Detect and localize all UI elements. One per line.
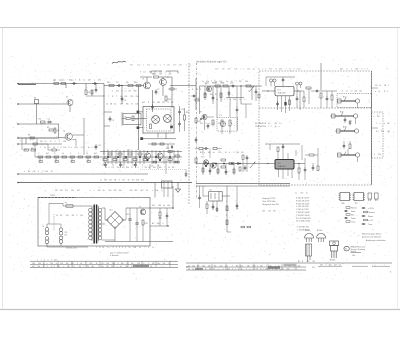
svg-text:10k: 10k <box>37 266 40 268</box>
capacitor C18 <box>230 85 232 87</box>
svg-text:1k: 1k <box>96 263 98 265</box>
svg-text:10k: 10k <box>354 91 357 93</box>
wire right edge riser <box>371 71 373 185</box>
svg-text:220: 220 <box>137 263 140 265</box>
capacitor C6 <box>121 96 123 98</box>
wire stub line1 <box>65 84 67 89</box>
svg-text:n: n <box>380 123 381 125</box>
transistor T8 <box>206 86 211 91</box>
svg-text:n: n <box>279 126 280 128</box>
svg-text:1u: 1u <box>129 247 131 249</box>
svg-text:1k: 1k <box>205 268 207 270</box>
svg-text:22n: 22n <box>112 263 115 265</box>
svg-text:10k: 10k <box>119 190 122 192</box>
transformer TR1 core <box>93 205 95 244</box>
svg-text:u: u <box>219 268 220 270</box>
svg-text:u: u <box>186 65 187 67</box>
svg-text:22n: 22n <box>109 180 112 182</box>
wire top rail <box>140 76 152 78</box>
case drawing TO92 b <box>317 233 326 238</box>
capacitor C11 <box>179 121 181 123</box>
svg-text:R4: R4 <box>39 119 41 121</box>
resistor R29 <box>221 159 226 161</box>
svg-text:Diode: Diode <box>351 218 355 220</box>
svg-text:C15: C15 <box>126 214 129 216</box>
svg-text:k: k <box>166 72 167 74</box>
svg-text:0,1: 0,1 <box>143 72 146 74</box>
capacitor C3 <box>92 83 94 85</box>
wire output band rail 3 <box>104 161 178 163</box>
resistor R32 <box>309 154 314 156</box>
svg-text:100: 100 <box>157 102 160 104</box>
case drawing DIP a <box>340 193 350 201</box>
svg-text:Trans.: Trans. <box>351 220 356 223</box>
svg-text:0,1: 0,1 <box>339 264 341 266</box>
ic IC2 <box>275 160 294 170</box>
wire input line 1 <box>18 83 104 85</box>
wire into ic1 <box>262 90 275 92</box>
wire x300 drop <box>299 91 301 110</box>
mains connector X1 <box>45 228 49 232</box>
resistor R1 <box>54 83 59 85</box>
svg-text:R 103 22k 0207: R 103 22k 0207 <box>296 203 309 205</box>
svg-text:T9: T9 <box>200 112 202 114</box>
wire lower link rail <box>143 138 176 140</box>
capacitor C5 <box>116 85 118 87</box>
title strip left line 2 <box>30 263 178 265</box>
svg-text:1k: 1k <box>102 247 104 249</box>
svg-text:Elko: Elko <box>351 214 354 216</box>
svg-text:4k7: 4k7 <box>88 80 91 82</box>
svg-text:0,1: 0,1 <box>268 123 271 125</box>
wire l5 tail <box>37 143 48 145</box>
svg-text:47k: 47k <box>153 74 156 76</box>
wire jack4 net <box>337 154 341 156</box>
wire ic1 out <box>294 90 302 92</box>
connector box output <box>162 181 173 188</box>
svg-text:R5: R5 <box>47 127 49 129</box>
capacitor C28 <box>304 167 306 169</box>
capacitor C24b <box>296 96 298 98</box>
svg-text:u: u <box>93 190 94 192</box>
fuse F1 <box>66 205 73 207</box>
svg-text:k: k <box>106 167 107 169</box>
capacitor C23 <box>296 82 299 85</box>
scan page bottom border <box>0 309 400 311</box>
transistor T2 <box>65 133 72 140</box>
svg-text:Verstärker Endstufe regie 51: Verstärker Endstufe regie 510 <box>196 61 227 64</box>
capacitor C9 <box>109 116 111 118</box>
svg-text:T4: T4 <box>167 77 169 79</box>
svg-text:22n: 22n <box>137 65 140 67</box>
capacitor C8 <box>152 104 154 106</box>
svg-text:k: k <box>138 167 139 169</box>
svg-text:1u: 1u <box>107 247 109 249</box>
svg-text:T3: T3 <box>142 79 144 81</box>
svg-text:47k: 47k <box>98 80 101 82</box>
wire x321 riser <box>320 63 322 90</box>
svg-text:10k: 10k <box>126 167 129 169</box>
ic1 pin 2 <box>281 96 283 112</box>
svg-text:1u: 1u <box>231 81 233 83</box>
svg-text:22n: 22n <box>204 94 207 96</box>
svg-text:T: T <box>235 268 236 270</box>
svg-text:100: 100 <box>98 190 101 192</box>
ic2 pins down <box>278 169 280 177</box>
transistor T5 <box>144 153 150 159</box>
resistor R14 <box>150 124 152 129</box>
resistor R5 <box>49 129 53 131</box>
svg-text:T: T <box>98 266 99 268</box>
svg-text:4k7: 4k7 <box>135 190 138 192</box>
svg-text:R15: R15 <box>186 112 189 114</box>
svg-text:1u: 1u <box>295 193 297 195</box>
svg-text:220: 220 <box>114 190 117 192</box>
svg-text:10k: 10k <box>167 205 170 207</box>
svg-text:1k: 1k <box>196 89 198 91</box>
svg-text:10k: 10k <box>359 91 362 93</box>
svg-text:k: k <box>162 190 163 192</box>
capacitor C21 <box>269 79 272 82</box>
pad module pin 1 <box>137 111 140 114</box>
resistor R28 <box>331 95 333 100</box>
jack BU3 <box>340 130 355 132</box>
svg-text:k: k <box>144 263 145 265</box>
capacitor C17 <box>166 213 168 215</box>
capacitor C22 <box>282 77 284 79</box>
component feet <box>241 226 245 228</box>
svg-text:k: k <box>209 123 210 125</box>
transformer TR1 primary <box>89 208 93 212</box>
svg-text:1u: 1u <box>146 190 148 192</box>
svg-text:u: u <box>91 147 92 149</box>
dashed divider <box>259 107 372 109</box>
svg-text:10k: 10k <box>24 149 27 151</box>
svg-text:R 101 4k7 0207: R 101 4k7 0207 <box>296 198 309 200</box>
svg-text:100: 100 <box>133 247 136 249</box>
component group right lower <box>312 165 314 167</box>
svg-text:R9: R9 <box>126 82 128 84</box>
case drawing small a <box>368 193 372 199</box>
svg-text:10k: 10k <box>245 81 248 83</box>
svg-text:10k: 10k <box>159 167 162 169</box>
wire t2 base <box>59 137 66 139</box>
switch S2 <box>59 228 63 232</box>
svg-text:k: k <box>229 152 230 154</box>
svg-text:220: 220 <box>57 266 60 268</box>
svg-text:C5: C5 <box>116 82 118 84</box>
capacitor C31 <box>185 172 187 174</box>
svg-text:Service 6 Kronberg: Service 6 Kronberg <box>351 248 366 251</box>
svg-text:1k: 1k <box>163 205 165 207</box>
svg-text:220: 220 <box>104 180 107 182</box>
resistor R25 <box>212 120 214 125</box>
svg-text:1k: 1k <box>51 171 53 173</box>
arrow pot feed 2 <box>250 162 255 168</box>
svg-text:47k: 47k <box>173 65 176 67</box>
svg-text:T 101 BC 546 B: T 101 BC 546 B <box>296 212 310 214</box>
svg-text:22n: 22n <box>154 72 157 74</box>
jack BU2 <box>335 115 354 117</box>
capacitor C15 electrolytic <box>128 218 131 220</box>
svg-text:1k: 1k <box>188 268 190 270</box>
svg-text:1u: 1u <box>152 247 154 249</box>
potentiometer P3 <box>54 128 56 133</box>
svg-text:0,1: 0,1 <box>114 104 117 106</box>
ic1 pin 1 <box>277 96 279 110</box>
capacitor C26 <box>344 117 346 119</box>
svg-text:47k: 47k <box>89 263 92 265</box>
svg-text:4k7: 4k7 <box>334 264 337 266</box>
svg-text:4k7: 4k7 <box>32 266 35 268</box>
transistor T9 <box>202 114 207 119</box>
node input 3 <box>17 123 19 125</box>
op-amp U1a <box>152 116 160 124</box>
svg-text:4k7: 4k7 <box>46 153 49 155</box>
svg-text:1k: 1k <box>86 153 88 155</box>
svg-text:R20: R20 <box>145 223 148 225</box>
svg-text:T: T <box>325 264 326 266</box>
svg-text:10k: 10k <box>131 263 134 265</box>
wire input line 4 <box>18 137 59 139</box>
svg-text:100: 100 <box>236 152 239 154</box>
resistor R22 <box>223 85 228 87</box>
component group upper band <box>152 143 156 145</box>
capacitor C24 <box>314 90 316 92</box>
arrow pot feed <box>249 86 254 92</box>
wire right risers <box>204 86 206 100</box>
svg-text:T 105 BD 433: T 105 BD 433 <box>297 227 309 229</box>
capacitor C3b <box>95 87 97 89</box>
svg-text:C9: C9 <box>112 120 114 122</box>
title strip left line 3 <box>30 266 178 268</box>
svg-text:1u: 1u <box>100 180 102 182</box>
svg-text:4k7: 4k7 <box>77 190 80 192</box>
svg-text:220: 220 <box>106 266 109 268</box>
svg-text:R12: R12 <box>168 99 171 101</box>
svg-text:10k: 10k <box>111 266 114 268</box>
svg-text:R10: R10 <box>134 82 137 84</box>
svg-text:22n: 22n <box>340 69 343 71</box>
case drawing DIP b <box>354 193 364 201</box>
svg-text:1k: 1k <box>289 69 291 71</box>
svg-text:TDA 1029: TDA 1029 <box>278 165 286 168</box>
svg-text:10k: 10k <box>135 104 138 106</box>
svg-text:22n: 22n <box>117 167 120 169</box>
node j2 <box>240 85 241 86</box>
node j1 <box>121 85 122 86</box>
svg-text:10k: 10k <box>159 72 162 74</box>
svg-text:4k7: 4k7 <box>60 190 63 192</box>
svg-text:1u: 1u <box>346 91 348 93</box>
svg-text:u: u <box>47 263 48 265</box>
svg-text:4k7: 4k7 <box>260 265 263 267</box>
svg-text:n: n <box>90 190 91 192</box>
wire line3 tail <box>52 123 59 125</box>
svg-text:1k: 1k <box>139 247 141 249</box>
svg-text:u: u <box>384 123 385 125</box>
scan page right border <box>397 28 399 310</box>
component row lower <box>202 168 204 172</box>
ic1 pin 3 <box>285 96 287 102</box>
svg-text:4k7: 4k7 <box>142 102 145 104</box>
jack BU4 <box>341 154 356 156</box>
svg-text:u: u <box>221 99 222 101</box>
svg-text:220: 220 <box>378 154 381 156</box>
resistor group output stage left <box>38 156 43 158</box>
svg-text:10k: 10k <box>63 141 66 143</box>
svg-text:n: n <box>351 69 352 71</box>
title strip right dark block <box>268 266 280 269</box>
svg-text:47k: 47k <box>147 65 150 67</box>
svg-text:n: n <box>367 69 368 71</box>
svg-text:IC 101 TDA 1029: IC 101 TDA 1029 <box>296 217 310 220</box>
ic2 pins up <box>277 152 279 160</box>
svg-text:1k: 1k <box>53 147 55 149</box>
scan page left border <box>1 28 3 310</box>
svg-text:1u: 1u <box>213 152 215 154</box>
svg-text:u: u <box>364 69 365 71</box>
node input 4 <box>17 137 19 139</box>
wire input line 3 <box>18 123 52 125</box>
relay box K2 <box>209 192 223 202</box>
case drawing TO220 <box>330 241 339 246</box>
svg-text:220: 220 <box>300 193 303 195</box>
svg-text:1k: 1k <box>106 104 108 106</box>
capacitor C13 <box>191 95 193 97</box>
resistor R4 <box>41 121 46 123</box>
svg-text:C10: C10 <box>181 109 184 111</box>
wire ic1 top rail <box>266 76 295 78</box>
capacitor C16 electrolytic <box>135 222 138 224</box>
ic1 pin 4 <box>289 96 291 111</box>
earth ground symbol <box>177 183 179 190</box>
svg-text:T: T <box>83 266 84 268</box>
module box A1 outer <box>143 107 174 134</box>
svg-text:10k: 10k <box>50 263 53 265</box>
svg-text:100: 100 <box>136 180 139 182</box>
svg-text:22n: 22n <box>71 190 74 192</box>
svg-text:4k7: 4k7 <box>120 104 123 106</box>
svg-text:1k: 1k <box>103 190 105 192</box>
capacitor C19 <box>212 95 214 97</box>
svg-text:1k: 1k <box>56 215 58 217</box>
wire riser x104 <box>103 84 105 156</box>
svg-text:C 101 47n 63V: C 101 47n 63V <box>296 206 309 208</box>
svg-text:0,1: 0,1 <box>120 266 122 268</box>
svg-text:RC 4558 DP: RC 4558 DP <box>255 123 267 125</box>
svg-text:k: k <box>230 99 231 101</box>
wire ic2 supply <box>265 143 300 145</box>
svg-text:TDA 1029 A: TDA 1029 A <box>255 125 266 128</box>
capacitor C2 <box>71 83 73 85</box>
dotted separator <box>140 169 186 171</box>
svg-text:u: u <box>117 266 118 268</box>
svg-text:1k: 1k <box>258 69 260 71</box>
svg-text:4k7: 4k7 <box>94 153 97 155</box>
svg-text:b. Nennlast: b. Nennlast <box>110 254 119 257</box>
node input 2 <box>17 103 19 105</box>
junction blobs band <box>107 156 109 158</box>
svg-text:100: 100 <box>38 263 41 265</box>
title strip right line 2 <box>186 266 306 268</box>
svg-text:47k: 47k <box>33 171 36 173</box>
svg-text:0,1: 0,1 <box>376 131 379 133</box>
jack box dashed <box>337 94 372 108</box>
resistor R15 <box>184 115 186 120</box>
resistor R26b <box>303 97 305 102</box>
svg-text:GL1: GL1 <box>109 210 113 212</box>
transistor T10 <box>203 160 208 165</box>
svg-text:100: 100 <box>106 263 109 265</box>
svg-text:220: 220 <box>286 268 289 270</box>
svg-text:Ausgang 4 ohm 28V: Ausgang 4 ohm 28V <box>263 203 280 206</box>
svg-text:0,1: 0,1 <box>225 265 227 267</box>
wire t1 base <box>48 103 67 105</box>
transistor T4 <box>160 79 167 86</box>
svg-text:10k: 10k <box>163 263 166 265</box>
wire jack feeds <box>337 100 341 102</box>
component group output stage mid <box>103 159 107 161</box>
wire mid drop x241 <box>241 103 252 105</box>
capacitor C10 <box>179 109 181 111</box>
transistor T11 <box>211 163 216 168</box>
svg-text:100: 100 <box>45 171 48 173</box>
svg-text:C 102 4u7 35V: C 102 4u7 35V <box>296 209 309 211</box>
svg-text:1k: 1k <box>120 96 122 98</box>
svg-text:10k: 10k <box>247 69 250 71</box>
wire mid column <box>226 186 228 232</box>
svg-text:BD433: BD433 <box>330 260 335 262</box>
svg-text:0,1: 0,1 <box>81 147 84 149</box>
svg-text:100: 100 <box>32 263 35 265</box>
ic IC1 <box>275 86 294 96</box>
power supply enclosure <box>38 198 150 247</box>
svg-text:BC546: BC546 <box>305 230 310 232</box>
svg-text:Kond.: Kond. <box>351 211 356 213</box>
wire t4 down <box>162 86 164 97</box>
svg-text:220: 220 <box>169 74 172 76</box>
wire input line 5 <box>18 143 62 145</box>
svg-text:100: 100 <box>74 147 77 149</box>
svg-text:T10: T10 <box>201 157 204 159</box>
wire right rail lower <box>196 163 262 165</box>
pad module pin 2 <box>137 126 140 129</box>
svg-text:22n: 22n <box>298 265 301 267</box>
wire link column <box>195 63 197 200</box>
svg-text:T 102 BC 556 B: T 102 BC 556 B <box>296 215 310 217</box>
wire t2 out <box>72 134 84 136</box>
svg-text:T2: T2 <box>63 131 65 133</box>
wire riser x138 <box>138 86 140 151</box>
resistor R18 <box>195 118 197 123</box>
svg-text:K2: K2 <box>210 190 212 192</box>
svg-text:1u: 1u <box>125 91 127 93</box>
svg-text:T1: T1 <box>66 97 68 99</box>
svg-text:u: u <box>375 91 376 93</box>
node input 5 <box>17 143 19 145</box>
svg-text:0,1: 0,1 <box>169 72 172 74</box>
svg-text:47k: 47k <box>269 69 272 71</box>
svg-text:Widerst.: Widerst. <box>351 206 358 209</box>
svg-text:R6: R6 <box>28 135 30 137</box>
case drawing capacitor <box>306 244 312 256</box>
svg-text:10k: 10k <box>268 211 271 213</box>
svg-text:R 102 10k 0207: R 102 10k 0207 <box>296 200 309 202</box>
svg-text:u: u <box>204 152 205 154</box>
svg-text:u: u <box>243 69 244 71</box>
svg-text:u: u <box>77 263 78 265</box>
